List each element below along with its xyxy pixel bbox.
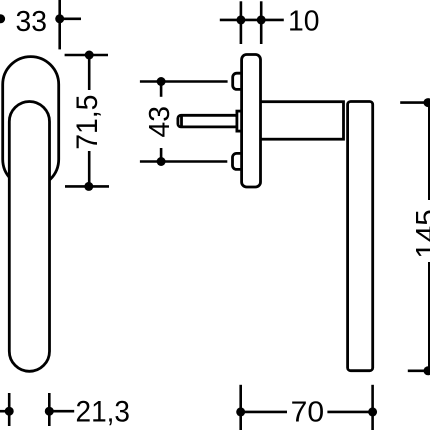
dimension 33 [0,0,81,49]
dim 71,5 bottom dot [84,182,93,191]
neck (side view horizontal arm) [250,102,344,140]
dim 10 line [220,19,284,22]
dim 145 bottom extension line [408,369,428,372]
dim 10 left dot [236,15,245,24]
grip (side view vertical bar) [348,102,373,371]
dim 33 right dot [55,14,64,23]
dimension 43 [140,82,228,162]
svg-text:10: 10 [288,4,319,36]
dim 71,5 vertical segment lower [88,151,91,186]
dim 70 right line [327,411,372,414]
dim 10 left extension vertical [240,1,243,44]
dim 145 bottom dot [424,366,430,375]
dim 43 bottom dot [157,157,166,166]
dim 145 vertical segment lower [428,262,430,371]
bottom screw pin [233,153,245,169]
svg-text:21,3: 21,3 [76,395,131,428]
dim 33 left stub [0,17,5,20]
dim 71,5 top dot [85,51,94,60]
dim 71,5 bottom extension line [65,185,109,188]
dimension 10 [220,1,284,44]
dim 21,3 left tick [8,393,11,426]
dim 70 right tick [371,385,374,430]
dim 71,5 vertical segment upper [88,55,91,90]
lever handle front view (pill) [9,102,49,372]
dim 43 top line [140,80,228,83]
dim 10 right dot [257,15,266,24]
dim 33 line right [60,17,81,20]
dim 21,3 left dot [5,407,14,416]
dim 10 right extension vertical [260,1,263,44]
dim 21,3 right tick [48,393,51,426]
dim 70 left tick [239,385,242,430]
dimension 21,3 [0,393,74,426]
spindle (side view) [178,115,238,127]
svg-text:145: 145 [410,209,430,259]
dim 145 vertical segment upper [428,103,430,200]
dim 21,3 right dot [45,407,54,416]
dim 33 extension line vertical [58,0,61,49]
washer plate [237,111,245,131]
top screw pin [233,73,245,89]
dim 33 left dot [0,14,5,23]
dim 43 top dot [157,77,166,86]
svg-text:43: 43 [143,106,175,137]
dim 71,5 top extension line [65,54,108,57]
dim 70 right dot [368,407,377,416]
dimension 71,5 [65,55,109,186]
dim 145 top extension line [400,101,428,104]
dim 21,3 left line [0,410,9,413]
dim 43 vertical segment upper [160,82,163,97]
dimension 145 [400,103,429,371]
dim 43 bottom line [140,160,227,163]
dimension 70 [241,385,373,430]
svg-text:70: 70 [291,395,325,427]
rosette front view (oval) [3,57,59,188]
dim 70 left line [241,411,287,414]
svg-text:33: 33 [16,5,47,37]
dim 70 left dot [236,407,245,416]
dim 43 vertical segment lower [160,148,163,162]
dim 145 top dot [424,98,430,107]
svg-text:71,5: 71,5 [71,95,104,150]
spindle tip chamfer line [180,115,183,127]
rosette side view slab [242,55,261,188]
dim 21,3 right line [49,410,74,413]
